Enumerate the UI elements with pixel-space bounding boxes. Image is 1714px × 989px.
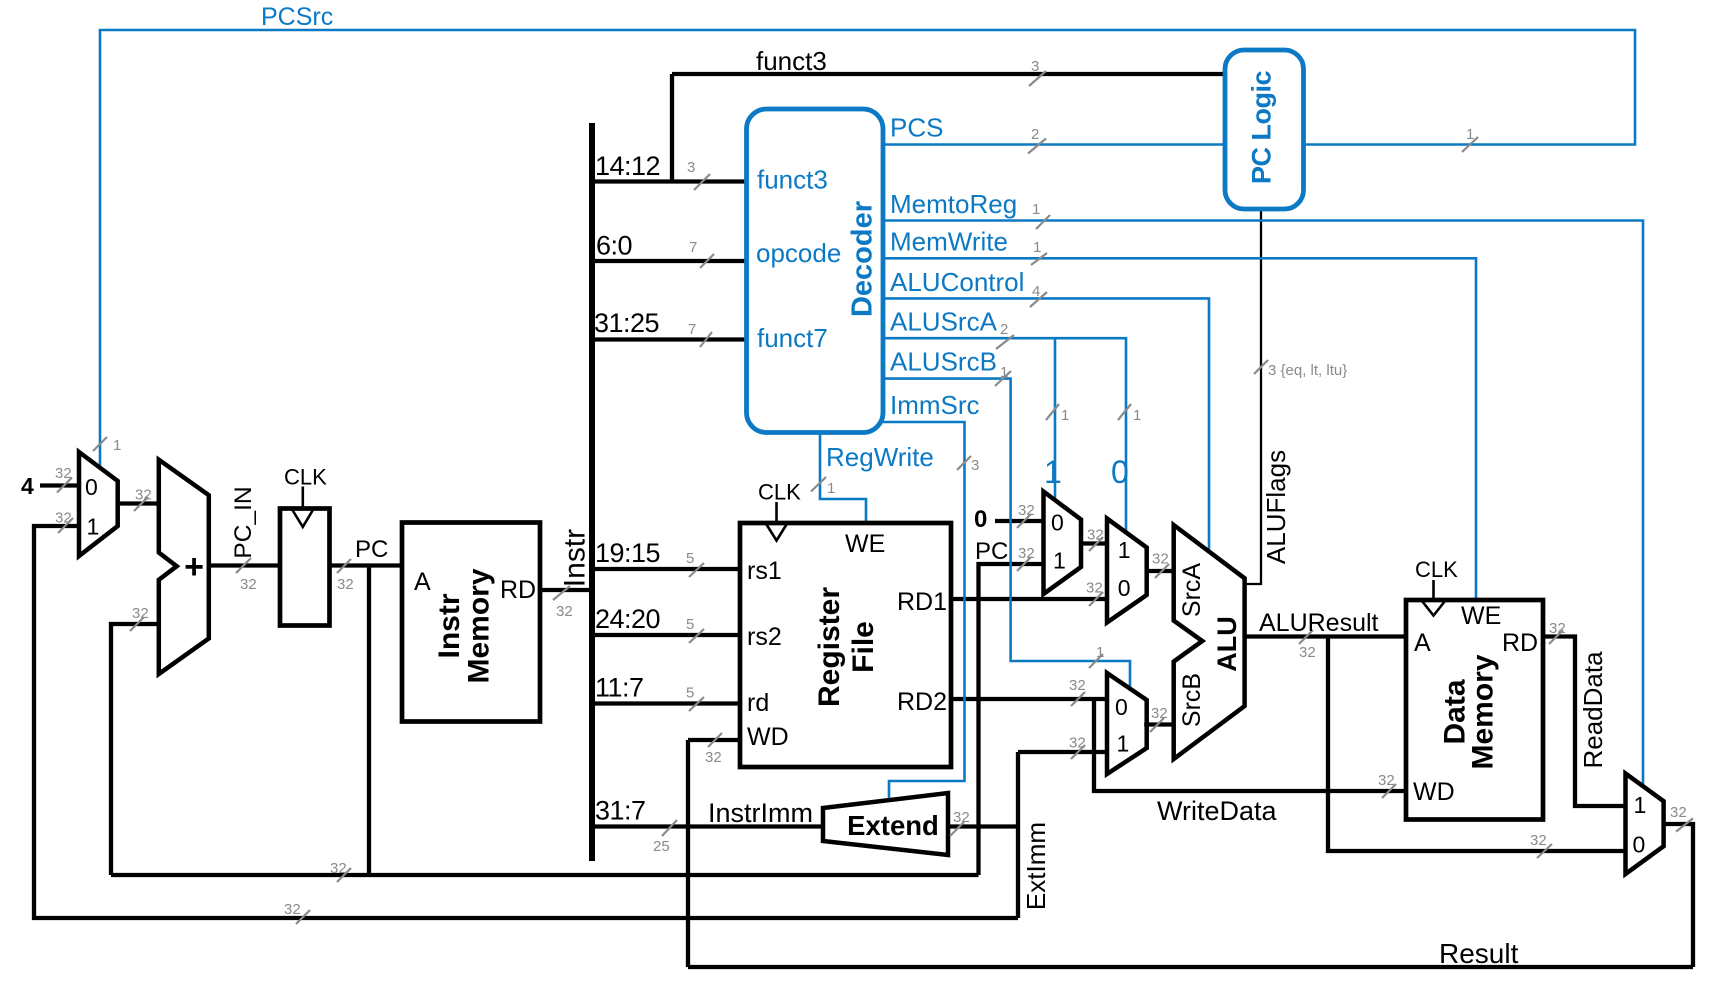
mux M1 PC source select <box>79 452 118 556</box>
width 32 on adder lower input <box>130 605 149 631</box>
wire ALUFlags to PC Logic <box>1245 209 1261 584</box>
width 7 on 6:0 slice <box>689 239 714 268</box>
pin rd of Register File <box>747 689 769 717</box>
svg-text:0: 0 <box>85 474 98 500</box>
width 25 on 31:7 slice <box>653 820 677 855</box>
net label RegWrite <box>826 442 934 472</box>
net label InstrImm <box>708 798 813 828</box>
wire ExtImm feedback to PC mux input 1 <box>34 526 1018 918</box>
net label funct3 top <box>756 46 827 76</box>
svg-text:1: 1 <box>1133 407 1141 424</box>
width 3 on funct3 wire <box>1029 58 1046 86</box>
wire PC riser to SrcA mux input 1 <box>979 564 1044 875</box>
label CLK of Data Memory <box>1415 557 1458 582</box>
svg-text:Memory: Memory <box>1467 654 1500 769</box>
wire ReadData to result mux input 1 <box>1543 637 1627 807</box>
pin RD of Instr Memory <box>500 576 536 604</box>
wire RD1 to mux2 input 0 <box>951 597 1107 601</box>
net label ImmSrc <box>890 390 980 420</box>
width 1 on ALUSrcB <box>995 364 1011 386</box>
slice label 6:0 <box>596 231 632 261</box>
label PC Logic <box>1247 71 1277 184</box>
pin RD2 of Register File <box>897 688 947 716</box>
svg-text:MemWrite: MemWrite <box>890 227 1008 257</box>
wire slice 31:7 InstrImm to Extend <box>592 824 823 828</box>
svg-text:WriteData: WriteData <box>1157 796 1278 826</box>
adder PC+4/Imm <box>159 460 209 674</box>
pin opcode of Decoder <box>756 238 841 268</box>
mux M3 SrcA second (1/0) <box>1107 519 1147 623</box>
net label WriteData <box>1157 796 1278 826</box>
wire Register File WD <box>688 738 740 742</box>
svg-text:ReadData: ReadData <box>1578 651 1608 769</box>
svg-text:PCSrc: PCSrc <box>261 3 333 31</box>
ALU <box>1174 525 1245 759</box>
width 32 on mux1 output <box>1087 527 1104 552</box>
svg-text:11:7: 11:7 <box>595 673 644 703</box>
block Data Memory <box>1406 600 1543 820</box>
svg-text:RD: RD <box>500 576 536 604</box>
svg-text:4: 4 <box>1032 283 1040 300</box>
net label PC at mux1 <box>975 538 1008 565</box>
wire slice 14:12 funct3 <box>592 179 747 183</box>
width 32 on ExtImm feedback wire <box>55 510 73 534</box>
svg-text:Decoder: Decoder <box>847 201 879 317</box>
svg-text:CLK: CLK <box>758 480 801 505</box>
wire slice 11:7 rd <box>592 701 740 705</box>
width 1 on MemWrite <box>1031 239 1047 265</box>
wire PC branch down <box>367 566 371 876</box>
net label PCSrc <box>261 3 333 31</box>
wire ImmSrc to Extend <box>883 422 965 800</box>
svg-text:1: 1 <box>1032 201 1040 218</box>
svg-text:1: 1 <box>1634 792 1647 818</box>
svg-text:1: 1 <box>827 480 835 497</box>
width 32 on PC to mux1 wire <box>1017 545 1035 571</box>
label Register File <box>813 587 880 707</box>
svg-text:rs1: rs1 <box>747 557 782 585</box>
svg-text:3 {eq, lt, ltu}: 3 {eq, lt, ltu} <box>1268 362 1347 379</box>
svg-text:1: 1 <box>1053 548 1066 574</box>
pin WE of Register File <box>845 530 885 558</box>
svg-text:32: 32 <box>1152 551 1169 568</box>
svg-text:32: 32 <box>1069 677 1086 694</box>
svg-text:RD2: RD2 <box>897 688 947 716</box>
block Decoder <box>747 109 884 433</box>
wire Result riser to WD <box>686 740 690 967</box>
net label PCS <box>890 113 943 143</box>
svg-text:CLK: CLK <box>1415 557 1458 582</box>
svg-text:opcode: opcode <box>756 238 841 268</box>
svg-text:3: 3 <box>971 457 979 474</box>
net label ALUSrcA <box>890 307 998 337</box>
slice label 19:15 <box>595 538 660 568</box>
width 1 on MemtoReg <box>1032 201 1050 229</box>
width 32 on ALUResult <box>1299 630 1316 661</box>
width 32 on PC mux output <box>134 487 152 512</box>
svg-text:32: 32 <box>337 576 354 593</box>
width 32 on Register File WD <box>705 733 722 766</box>
width 32 on WriteData <box>1378 772 1396 798</box>
clock notch Register File <box>767 502 787 541</box>
svg-text:1: 1 <box>113 437 121 454</box>
pin 1 of result mux <box>1634 792 1647 818</box>
width 32 on Data Memory RD <box>1549 620 1566 644</box>
wire Instr Memory RD to bus <box>540 588 592 592</box>
svg-text:32: 32 <box>284 901 301 918</box>
wire slice 24:20 rs2 <box>592 633 740 637</box>
svg-text:PCS: PCS <box>890 113 943 143</box>
net label ALUFlags <box>1261 450 1291 564</box>
svg-text:25: 25 <box>653 838 670 855</box>
svg-text:32: 32 <box>556 603 573 620</box>
svg-text:1: 1 <box>1117 731 1130 757</box>
width 3 on 14:12 slice <box>687 159 710 190</box>
svg-text:ExtImm: ExtImm <box>1021 822 1051 910</box>
pin 0 of SrcB mux <box>1115 694 1128 720</box>
pin RD1 of Register File <box>897 588 947 616</box>
width 32 on constant 0 wire <box>1017 502 1035 528</box>
block Instr Memory <box>402 523 540 722</box>
label Decoder <box>847 201 879 317</box>
net label ALUResult <box>1259 609 1379 637</box>
wire RD2 to SrcB mux input 0 <box>951 697 1107 701</box>
width 5 on 19:15 slice <box>686 550 704 577</box>
wire PCS decoder to PC Logic <box>883 143 1225 146</box>
svg-text:32: 32 <box>1530 832 1547 849</box>
svg-text:ALUFlags: ALUFlags <box>1261 450 1291 564</box>
svg-text:Result: Result <box>1439 938 1519 969</box>
svg-text:PC_IN: PC_IN <box>230 486 257 558</box>
pin A of Instr Memory <box>414 568 431 596</box>
width 1 on mux2 select branch <box>1118 404 1141 424</box>
slice label 31:7 <box>595 796 646 826</box>
select value 1 blue of mux1 <box>1044 454 1062 490</box>
wire PC mux output to adder <box>118 501 159 505</box>
net label ALUSrcB <box>890 347 997 377</box>
wire ALUSrcA branch to mux1 select <box>1054 338 1057 500</box>
width 4 on ALUControl <box>1030 283 1047 307</box>
wire WriteData branch <box>1094 699 1406 791</box>
wire ExtImm riser <box>1016 752 1020 918</box>
wire MemtoReg to result mux select <box>883 221 1643 787</box>
width 32 on Extend output <box>950 809 970 836</box>
width 2 on PCS wire <box>1028 126 1046 154</box>
wire PC bottom rail <box>111 873 979 877</box>
svg-text:0: 0 <box>1111 454 1129 490</box>
svg-text:1: 1 <box>1118 537 1131 563</box>
svg-text:0: 0 <box>1633 832 1646 858</box>
svg-text:31:7: 31:7 <box>595 796 646 826</box>
width 32 on result mux output <box>1670 804 1693 832</box>
label Extend <box>847 810 939 841</box>
net label PC <box>355 536 388 563</box>
pin rs1 of Register File <box>747 557 782 585</box>
svg-text:RegWrite: RegWrite <box>826 442 934 472</box>
mux M4 SrcB (0/1) <box>1107 673 1147 774</box>
svg-text:1: 1 <box>87 514 100 540</box>
svg-text:funct7: funct7 <box>757 323 828 353</box>
svg-text:7: 7 <box>689 239 697 256</box>
value 0 constant <box>974 506 987 533</box>
svg-text:WE: WE <box>845 530 885 558</box>
wire funct3 to PC Logic <box>672 72 1225 76</box>
width 5 on 24:20 slice <box>686 616 704 643</box>
svg-text:19:15: 19:15 <box>595 538 660 568</box>
block Register File <box>740 523 951 767</box>
width 32 on SrcB mux output <box>1150 705 1168 732</box>
svg-text:32: 32 <box>240 576 257 593</box>
svg-text:ALUSrcB: ALUSrcB <box>890 347 997 377</box>
svg-text:ALUControl: ALUControl <box>890 267 1024 297</box>
width 32 on RD2 <box>1069 677 1086 706</box>
label Data Memory <box>1439 654 1500 769</box>
width 32 on Instr wire <box>553 586 573 620</box>
svg-text:32: 32 <box>1069 735 1086 752</box>
svg-text:3: 3 <box>687 159 695 176</box>
svg-text:31:25: 31:25 <box>594 308 659 338</box>
svg-text:ALU: ALU <box>1212 616 1242 672</box>
label ALU <box>1212 616 1242 672</box>
svg-text:0: 0 <box>1118 575 1131 601</box>
svg-text:A: A <box>1414 629 1431 657</box>
label + of adder <box>184 548 204 586</box>
net label Instr <box>559 529 592 587</box>
pin RD of Data Memory <box>1502 629 1538 657</box>
svg-text:32: 32 <box>55 510 72 527</box>
net label MemWrite <box>890 227 1008 257</box>
svg-text:MemtoReg: MemtoReg <box>890 189 1017 219</box>
pin 1 of mux1 <box>1053 548 1066 574</box>
svg-text:4: 4 <box>21 473 34 499</box>
width 32 on ALUResult to result mux <box>1530 832 1552 858</box>
register PC <box>280 509 330 626</box>
mux M2 SrcA first (0/PC) <box>1044 492 1082 595</box>
wire PCSrc PC Logic to PC mux select <box>100 30 1635 468</box>
svg-text:File: File <box>847 621 880 673</box>
width 32 on mux2 output <box>1152 551 1169 579</box>
svg-text:32: 32 <box>1151 705 1168 722</box>
wire ALUSrcA to mux2 select <box>883 338 1126 532</box>
pin 0 of mux1 <box>1051 510 1064 536</box>
width 1 on PCSrc select <box>93 437 121 454</box>
clock notch PC register <box>292 487 313 527</box>
svg-text:funct3: funct3 <box>757 165 828 195</box>
svg-text:Register: Register <box>813 587 846 707</box>
svg-text:PC: PC <box>975 538 1008 565</box>
svg-text:3: 3 <box>1031 58 1039 75</box>
svg-text:14:12: 14:12 <box>595 151 660 181</box>
svg-text:32: 32 <box>1018 545 1035 562</box>
pin 1 of PC mux <box>87 514 100 540</box>
svg-text:Extend: Extend <box>847 810 939 841</box>
pin 0 of mux2 <box>1118 575 1131 601</box>
slice label 24:20 <box>595 604 660 634</box>
slice label 14:12 <box>595 151 660 181</box>
pin SrcA of ALU <box>1178 563 1206 618</box>
wire constant 0 to SrcA mux input 0 <box>995 519 1044 523</box>
wire mux2 output to ALU SrcA <box>1147 569 1174 573</box>
svg-text:ImmSrc: ImmSrc <box>890 390 980 420</box>
width 1 on PCSrc wire right <box>1462 126 1478 152</box>
svg-text:ALUResult: ALUResult <box>1259 609 1379 637</box>
width 1 on SrcB mux select <box>1089 644 1104 668</box>
svg-text:PC: PC <box>355 536 388 563</box>
net label Result <box>1439 938 1519 969</box>
wire constant 4 to PC mux input 0 <box>40 483 79 487</box>
label Instr Memory <box>433 568 496 683</box>
svg-text:A: A <box>414 568 431 596</box>
pin funct7 of Decoder <box>757 323 828 353</box>
width 7 on 31:25 slice <box>688 321 712 347</box>
pin rs2 of Register File <box>747 623 782 651</box>
width 32 on constant 4 wire <box>55 465 72 493</box>
svg-text:5: 5 <box>686 550 694 567</box>
svg-text:32: 32 <box>1299 644 1316 661</box>
svg-text:1: 1 <box>1061 407 1069 424</box>
wire SrcB mux output to ALU SrcB <box>1144 722 1174 726</box>
svg-text:5: 5 <box>686 616 694 633</box>
svg-text:6:0: 6:0 <box>596 231 632 261</box>
svg-text:Instr: Instr <box>559 529 592 587</box>
svg-text:WE: WE <box>1461 602 1501 630</box>
width 32 on PC_IN wire <box>236 558 257 593</box>
width 32 on ExtImm bottom rail <box>284 901 310 924</box>
svg-text:rd: rd <box>747 689 769 717</box>
wire funct3 riser <box>670 74 674 182</box>
wire slice 31:25 funct7 <box>592 337 747 341</box>
svg-text:rs2: rs2 <box>747 623 782 651</box>
wire Result bottom rail <box>688 965 1693 969</box>
svg-text:+: + <box>184 548 204 586</box>
wire slice 19:15 rs1 <box>592 567 740 571</box>
svg-text:32: 32 <box>705 749 722 766</box>
svg-text:5: 5 <box>686 685 694 702</box>
width 5 on 11:7 slice <box>686 685 704 712</box>
svg-text:RD: RD <box>1502 629 1538 657</box>
label CLK of PC register <box>284 465 327 490</box>
wire PC register to Instr Memory A <box>330 563 403 567</box>
wire PC to adder lower input <box>111 624 159 875</box>
wire RegWrite to Register File WE <box>820 433 866 524</box>
wire ALUResult branch to result mux input 0 <box>1328 637 1627 852</box>
svg-text:Memory: Memory <box>463 568 496 683</box>
wire ALUResult to Data Memory A <box>1245 634 1406 638</box>
wire slice 6:0 opcode <box>592 259 747 263</box>
svg-text:WD: WD <box>747 723 789 751</box>
wire ALUSrcB to SrcB mux select <box>883 379 1130 689</box>
pin WD of Data Memory <box>1413 778 1455 806</box>
svg-text:ALUSrcA: ALUSrcA <box>890 307 998 337</box>
wire SrcA mux1 output to mux2 <box>1081 541 1107 545</box>
net label PC_IN <box>230 486 257 558</box>
svg-text:7: 7 <box>688 321 696 338</box>
label CLK of Register File <box>758 480 801 505</box>
svg-text:32: 32 <box>1087 527 1104 544</box>
net label ALUControl <box>890 267 1024 297</box>
width 3 and flags list on ALUFlags <box>1254 360 1347 379</box>
svg-text:PC Logic: PC Logic <box>1247 71 1277 184</box>
pin 0 of result mux <box>1633 832 1646 858</box>
svg-text:funct3: funct3 <box>756 46 827 76</box>
svg-text:2: 2 <box>1031 126 1039 143</box>
width 1 on RegWrite <box>811 477 835 497</box>
mux M5 result (1/0) <box>1626 774 1664 875</box>
svg-text:InstrImm: InstrImm <box>708 798 813 828</box>
width 1 on mux1 select branch <box>1046 404 1069 424</box>
pin SrcB of ALU <box>1178 673 1206 727</box>
wire result mux output <box>1663 824 1693 967</box>
net label ExtImm <box>1021 822 1051 910</box>
svg-text:0: 0 <box>1051 510 1064 536</box>
wire MemWrite to Data Memory WE <box>883 258 1476 600</box>
pin WD of Register File <box>747 723 789 751</box>
wire ALUControl to ALU <box>883 298 1209 551</box>
svg-text:CLK: CLK <box>284 465 327 490</box>
width 32 on PC wire <box>337 559 354 593</box>
width 32 on RD1 <box>1086 580 1103 607</box>
net label MemtoReg <box>890 189 1017 219</box>
wire PC_IN adder to PC register <box>209 563 280 567</box>
select value 0 blue of mux2 <box>1111 454 1129 490</box>
wire Extend output ExtImm <box>948 824 1018 828</box>
svg-text:SrcA: SrcA <box>1178 563 1206 618</box>
pin funct3 of Decoder <box>757 165 828 195</box>
svg-text:RD1: RD1 <box>897 588 947 616</box>
wire ExtImm to SrcB mux input 1 <box>1018 750 1107 754</box>
svg-text:1: 1 <box>1044 454 1062 490</box>
svg-text:Instr: Instr <box>433 593 466 658</box>
svg-text:0: 0 <box>974 506 987 533</box>
width 32 on PC bottom rail <box>330 860 351 882</box>
slice label 11:7 <box>595 673 644 703</box>
svg-text:24:20: 24:20 <box>595 604 660 634</box>
clock notch Data Memory <box>1422 580 1445 616</box>
width 2 on ALUSrcA <box>996 321 1014 349</box>
svg-text:32: 32 <box>1670 804 1687 821</box>
svg-text:1: 1 <box>1033 239 1041 256</box>
svg-text:32: 32 <box>1018 502 1035 519</box>
pin 1 of SrcB mux <box>1117 731 1130 757</box>
pin A of Data Memory <box>1414 629 1431 657</box>
pin 0 of PC mux <box>85 474 98 500</box>
value 4 constant <box>21 473 34 499</box>
svg-text:SrcB: SrcB <box>1178 673 1206 727</box>
block PC Logic <box>1225 50 1304 209</box>
svg-text:2: 2 <box>1000 321 1008 338</box>
bus Instr <box>589 123 595 861</box>
net label ReadData <box>1578 651 1608 769</box>
slice label 31:25 <box>594 308 659 338</box>
extender Extend <box>823 793 948 855</box>
svg-text:WD: WD <box>1413 778 1455 806</box>
width 32 on ExtImm input to SrcB mux <box>1069 735 1086 760</box>
svg-text:0: 0 <box>1115 694 1128 720</box>
width 3 on ImmSrc <box>957 456 979 474</box>
pin 1 of mux2 <box>1118 537 1131 563</box>
pin WE of Data Memory <box>1461 602 1501 630</box>
